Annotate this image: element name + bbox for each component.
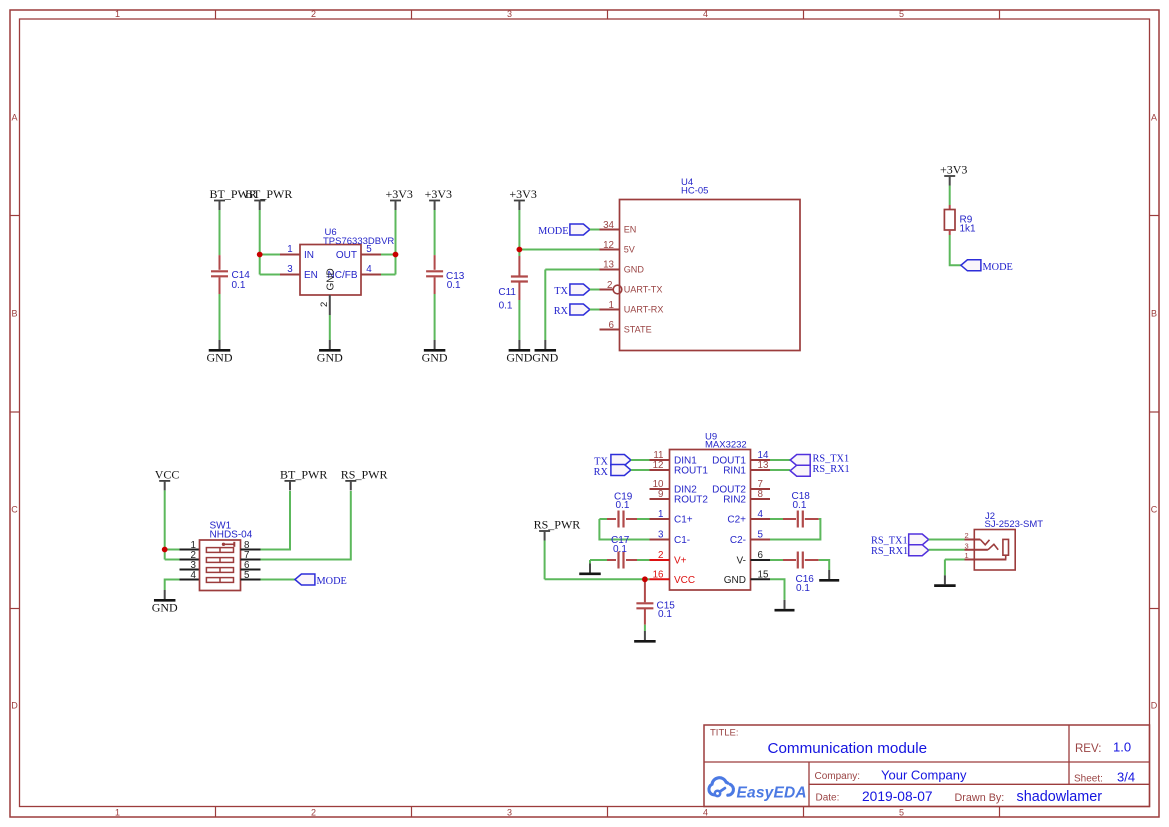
wire C19 to U9 pin 3 (599, 519, 649, 540)
U4 pin 13 lead (600, 269, 620, 271)
wire to SW1 pin 1 (165, 549, 180, 551)
wire MODE to U4 pin 34 (590, 229, 600, 231)
svg-text:EN: EN (304, 270, 318, 281)
svg-text:IN: IN (304, 250, 314, 261)
svg-text:Sheet:: Sheet: (1074, 774, 1103, 785)
U6 pin 3 lead (280, 274, 300, 276)
svg-text:VCC: VCC (674, 575, 695, 586)
svg-text:RS_RX1: RS_RX1 (813, 464, 850, 475)
resistor R9 top lead (949, 205, 951, 210)
svg-text:0.1: 0.1 (796, 583, 810, 594)
svg-text:0.1: 0.1 (613, 544, 627, 555)
svg-text:RS_RX1: RS_RX1 (871, 546, 908, 557)
svg-text:RX: RX (594, 467, 609, 478)
svg-text:13: 13 (603, 260, 614, 271)
svg-text:UART-RX: UART-RX (624, 304, 664, 314)
wire R9 to MODE port (950, 235, 961, 265)
svg-text:C1+: C1+ (674, 515, 693, 526)
capacitor C19 (619, 511, 624, 528)
U4 pin 2 inversion bubble (613, 285, 622, 294)
wire RX to U9 pin 12 (631, 469, 650, 471)
wire U6 output (381, 254, 396, 256)
junction at U6 output (393, 252, 399, 258)
wire U9 pin 14 to RS_TX1 (770, 459, 790, 461)
top column tick 2 (411, 10, 413, 19)
U9 pin 11 lead (650, 459, 670, 461)
svg-text:5V: 5V (624, 244, 636, 254)
svg-text:ROUT2: ROUT2 (674, 495, 708, 506)
svg-text:RIN1: RIN1 (723, 466, 746, 477)
svg-text:OUT: OUT (336, 250, 357, 261)
svg-text:GND: GND (506, 351, 532, 365)
SW1 pin 5 lead (241, 579, 261, 581)
U6 pin 2 lead (329, 295, 331, 315)
svg-text:BT_PWR: BT_PWR (280, 467, 327, 481)
svg-text:2019-08-07: 2019-08-07 (862, 789, 933, 804)
right row tick 3 (1150, 608, 1160, 610)
wire C14 to ground (219, 294, 221, 340)
wire SW1 pin 5 to MODE port (261, 579, 295, 581)
svg-text:REV:: REV: (1075, 743, 1101, 755)
svg-text:TX: TX (554, 286, 568, 297)
svg-text:Drawn By:: Drawn By: (955, 792, 1005, 804)
left row tick 2 (10, 411, 20, 413)
J2 sleeve contact symbol (1003, 539, 1009, 559)
J2 pin 1 lead (965, 559, 1007, 561)
svg-text:RS_TX1: RS_TX1 (871, 536, 908, 547)
svg-text:V+: V+ (674, 556, 687, 567)
wire C18 to U9 pin 5 (770, 519, 820, 540)
module U4 body (620, 200, 801, 351)
bottom column tick 5 (999, 807, 1001, 818)
SW1 pin 1 lead (180, 549, 200, 551)
svg-text:16: 16 (653, 569, 664, 580)
svg-text:VCC: VCC (155, 467, 180, 481)
wire down to U6 pin 4 (395, 255, 397, 275)
wire from BT_PWR 2 (259, 210, 261, 255)
svg-text:1: 1 (658, 509, 663, 520)
left row tick 1 (10, 215, 20, 217)
U9 pin 4 lead (751, 518, 771, 520)
capacitor C15 bottom lead (644, 608, 646, 624)
wire RX to U4 pin 1 (590, 309, 600, 311)
wire U9 pin 4 to C18 (770, 518, 783, 520)
wire SW1 pin 7 to RS_PWR (261, 491, 351, 560)
capacitor C13 top lead (434, 255, 436, 270)
svg-text:2: 2 (658, 550, 663, 561)
capacitor C15 (636, 603, 653, 608)
capacitor C14 (211, 271, 228, 276)
svg-text:RX: RX (554, 306, 569, 317)
ground for U4 GND pin (532, 340, 558, 365)
capacitor C19 left lead (607, 518, 616, 520)
capacitor C15 top lead (644, 579, 646, 602)
wire to SW1 pin 2 (165, 559, 180, 561)
svg-text:Date:: Date: (816, 793, 840, 804)
capacitor C11 top lead (518, 256, 520, 276)
wire C11 to ground (518, 300, 520, 340)
net port RX (570, 304, 590, 315)
junction at U9 VCC (642, 576, 648, 582)
wire ground to C17 (590, 559, 607, 561)
svg-text:1: 1 (287, 244, 292, 255)
J2 pin 2 lead (965, 539, 981, 541)
net port RX at U9 (611, 465, 631, 476)
left row tick 3 (10, 608, 20, 610)
net port MODE at SW1 (295, 574, 315, 585)
svg-text:3: 3 (507, 807, 512, 817)
U4 pin 1 lead (600, 309, 620, 311)
svg-text:GND: GND (207, 351, 233, 365)
transceiver U9 body (670, 450, 751, 591)
svg-text:EasyEDA: EasyEDA (737, 785, 807, 802)
resistor R9 bottom lead (949, 230, 951, 235)
svg-text:B: B (11, 309, 17, 319)
capacitor C18 left lead (783, 518, 796, 520)
svg-text:EN: EN (624, 224, 637, 234)
wire from RS_PWR at U9 (544, 541, 546, 580)
SW1 pin 3 lead (180, 569, 200, 571)
svg-text:ROUT1: ROUT1 (674, 466, 708, 477)
ground under C15 (634, 631, 656, 641)
svg-text:A: A (11, 113, 17, 123)
svg-text:3: 3 (507, 9, 512, 19)
svg-text:3: 3 (287, 264, 293, 275)
wire C19 to U9 pin 1 (637, 518, 650, 520)
power flag +3V3 at HC-05 (509, 187, 536, 210)
ground under U6 (317, 340, 343, 365)
svg-text:shadowlamer: shadowlamer (1017, 789, 1103, 805)
SW1 pin 7 lead (241, 559, 261, 561)
power flag RS_PWR at U9 (534, 517, 581, 540)
svg-text:5: 5 (899, 9, 904, 19)
right row tick 1 (1150, 215, 1160, 217)
svg-text:0.1: 0.1 (232, 280, 246, 291)
U6 pin 4 lead (361, 274, 381, 276)
resistor R9 body (944, 210, 955, 231)
svg-text:RIN2: RIN2 (723, 495, 746, 506)
svg-text:C1-: C1- (674, 535, 690, 546)
svg-text:+3V3: +3V3 (509, 187, 536, 201)
U9 pin 15 lead (751, 578, 771, 580)
svg-text:GND: GND (326, 268, 337, 290)
capacitor C11 (511, 277, 528, 282)
svg-text:C2+: C2+ (727, 515, 746, 526)
capacitor C17 (619, 552, 624, 569)
svg-text:0.1: 0.1 (658, 609, 672, 620)
svg-text:1.0: 1.0 (1113, 740, 1131, 755)
ground at U9 pin 15 (775, 600, 795, 610)
U6 pin 5 lead (361, 254, 381, 256)
capacitor C13 bottom lead (434, 277, 436, 294)
svg-text:2: 2 (311, 9, 316, 19)
wire C13 to ground (434, 294, 436, 340)
svg-text:BT_PWR: BT_PWR (245, 187, 292, 201)
U9 pin 5 lead (751, 539, 771, 541)
ground under C11 (506, 340, 532, 365)
U9 pin 9 lead (650, 498, 670, 500)
net port RS_TX1 at U9 (790, 455, 810, 466)
svg-text:2: 2 (319, 302, 330, 307)
wire to C19 (599, 518, 607, 520)
wire RS_TX1 to J2 pin 2 (929, 539, 965, 541)
svg-text:B: B (1151, 309, 1157, 319)
capacitor C11 bottom lead (518, 283, 520, 301)
wire U6 pin 2 to ground (329, 315, 331, 340)
U9 pin 12 lead (650, 469, 670, 471)
wire to U4 pin 13 (545, 269, 599, 271)
svg-text:3: 3 (965, 541, 969, 550)
U9 pin 13 lead (751, 469, 771, 471)
wire RS_RX1 to J2 pin 3 (929, 549, 965, 551)
wire junction to U9 pin 16 (645, 578, 650, 580)
capacitor C17 right lead (626, 559, 637, 561)
SW1 pin 4 lead (180, 579, 200, 581)
EasyEDA logo cloud icon (709, 778, 734, 796)
capacitor C18 right lead (805, 518, 819, 520)
svg-text:D: D (1151, 701, 1158, 711)
top column tick 1 (215, 10, 217, 19)
SW1 pin 2 lead (180, 559, 200, 561)
svg-text:MODE: MODE (538, 226, 568, 237)
U9 pin 3 lead (650, 539, 670, 541)
bottom column tick 3 (607, 807, 609, 818)
svg-text:1: 1 (609, 300, 614, 311)
U9 pin 14 lead (751, 459, 771, 461)
junction at HC-05 5V (517, 247, 523, 253)
U9 pin 7 lead (751, 488, 771, 490)
capacitor C14 top lead (219, 255, 221, 270)
junction at U6 input (257, 252, 263, 258)
SW1 switch element row 2 (206, 558, 233, 563)
svg-text:+3V3: +3V3 (940, 162, 967, 176)
svg-text:+3V3: +3V3 (386, 187, 413, 201)
svg-text:Communication module: Communication module (768, 740, 928, 757)
power flag +3V3 at U6 output (386, 187, 413, 210)
net port RS_RX1 at J2 (909, 545, 929, 556)
bottom column tick 1 (215, 807, 217, 818)
svg-text:3: 3 (658, 530, 664, 541)
svg-text:0.1: 0.1 (447, 280, 461, 291)
svg-text:C: C (11, 505, 18, 515)
svg-text:STATE: STATE (624, 324, 652, 334)
svg-text:MAX3232: MAX3232 (705, 440, 747, 451)
wire down to SW1 pin 2 (164, 550, 166, 560)
svg-text:RS_TX1: RS_TX1 (813, 454, 850, 465)
top column tick 4 (803, 10, 805, 19)
power flag BT_PWR 1 (210, 187, 257, 210)
svg-text:5: 5 (899, 807, 904, 817)
wire to U6 pin 1 (260, 254, 280, 256)
wire +3V3 to U4 pin 12 (519, 249, 599, 251)
wire down from J2 pin 1 (944, 560, 946, 576)
wire U9 pin 15 to ground (770, 579, 785, 600)
svg-text:0.1: 0.1 (793, 500, 807, 511)
capacitor C16 (798, 552, 803, 569)
J2 tip contact symbol (980, 540, 989, 545)
svg-text:3/4: 3/4 (1117, 770, 1135, 785)
ground under C13 (422, 340, 448, 365)
wire RS_PWR to U9 VCC (545, 578, 645, 580)
power flag RS_PWR at SW1 (341, 467, 388, 490)
svg-text:GND: GND (724, 575, 746, 586)
SW1 switch element row 1 (206, 548, 233, 553)
svg-text:12: 12 (653, 460, 664, 471)
wire U4 GND down (544, 270, 546, 341)
svg-text:+3V3: +3V3 (425, 187, 452, 201)
power flag BT_PWR 2 (245, 187, 292, 210)
svg-text:GND: GND (152, 601, 178, 615)
svg-text:Your Company: Your Company (881, 768, 967, 783)
wire down to U6 pin 3 (259, 255, 261, 275)
ground under SW1 (152, 590, 178, 615)
wire C17 to U9 pin 2 (637, 559, 650, 561)
U4 pin 12 lead (600, 249, 620, 251)
U9 pin 10 lead (650, 488, 670, 490)
U9 pin 16 lead (650, 578, 670, 580)
svg-text:4: 4 (703, 807, 708, 817)
net port MODE at R9 (961, 260, 981, 271)
wire to U6 pin 4 (381, 274, 396, 276)
svg-text:0.1: 0.1 (499, 301, 513, 312)
U4 pin 34 lead (600, 229, 620, 231)
U6 pin 1 lead (280, 254, 300, 256)
U9 pin 8 lead (751, 498, 771, 500)
wire SW1 pin 4 to ground (165, 580, 180, 591)
ground at C16 (819, 570, 839, 580)
svg-text:34: 34 (603, 220, 614, 231)
svg-text:A: A (1151, 113, 1157, 123)
svg-text:4: 4 (703, 9, 708, 19)
svg-text:0.1: 0.1 (616, 500, 630, 511)
svg-text:9: 9 (658, 489, 663, 500)
svg-text:NHDS-04: NHDS-04 (210, 529, 253, 540)
wire from +3V3 at HC-05 (518, 210, 520, 250)
svg-text:12: 12 (603, 240, 614, 251)
svg-text:RS_PWR: RS_PWR (534, 517, 581, 531)
svg-text:V-: V- (737, 556, 746, 567)
net port TX (570, 284, 590, 295)
svg-text:2: 2 (965, 531, 969, 540)
power flag +3V3 at R9 (940, 162, 967, 185)
capacitor C14 bottom lead (219, 277, 221, 294)
svg-text:GND: GND (624, 264, 645, 274)
svg-text:4: 4 (191, 570, 197, 581)
SW1 switch element row 3 (206, 568, 233, 573)
regulator U6 body (300, 245, 361, 296)
net port MODE at U4 (570, 224, 590, 235)
svg-text:RS_PWR: RS_PWR (341, 467, 388, 481)
wire junction to C11 (518, 250, 520, 257)
power flag BT_PWR at SW1 (280, 467, 327, 490)
SW1 switch element row 4 (206, 578, 233, 583)
svg-text:C11: C11 (498, 287, 516, 298)
U9 pin 1 lead (650, 518, 670, 520)
svg-text:MODE: MODE (983, 262, 1013, 273)
svg-text:TITLE:: TITLE: (710, 728, 739, 739)
wire TX to U9 pin 11 (631, 459, 650, 461)
U4 pin 2 lead (600, 289, 614, 291)
bottom column tick 4 (803, 807, 805, 818)
wire from +3V3 at C13 (434, 210, 436, 255)
SW1 slider indicator (222, 542, 235, 547)
svg-text:6: 6 (609, 320, 615, 331)
J2 pin 3 lead (965, 549, 988, 551)
net port TX at U9 (611, 455, 631, 466)
svg-text:2: 2 (607, 280, 612, 291)
jack J2 body (974, 530, 1015, 571)
wire +3V3 to junction (395, 210, 397, 255)
U9 pin 2 lead (650, 559, 670, 561)
svg-text:SJ-2523-SMT: SJ-2523-SMT (985, 519, 1044, 530)
capacitor C17 left lead (607, 559, 616, 561)
net port RS_TX1 at J2 (909, 534, 929, 545)
wire U9 pin 13 to RS_RX1 (770, 469, 790, 471)
wire J2 pin 1 to ground (945, 559, 965, 561)
svg-text:1k1: 1k1 (960, 223, 977, 234)
junction at SW1 pin 1 (162, 547, 168, 553)
right row tick 2 (1150, 411, 1160, 413)
U4 pin 6 lead (600, 329, 620, 331)
capacitor C13 (426, 271, 443, 276)
wire C16 to ground (819, 560, 830, 570)
wire to U6 pin 3 (260, 274, 280, 276)
power flag VCC (155, 467, 180, 490)
wire C17 to ground (589, 560, 591, 564)
svg-text:C2-: C2- (730, 535, 746, 546)
SW1 pin 6 lead (241, 569, 261, 571)
wire from VCC (164, 490, 166, 549)
svg-text:1: 1 (965, 551, 969, 560)
svg-text:UART-TX: UART-TX (624, 284, 663, 294)
svg-text:1: 1 (115, 807, 120, 817)
net port RS_RX1 at U9 (790, 465, 810, 476)
svg-text:GND: GND (422, 351, 448, 365)
bottom column tick 2 (411, 807, 413, 818)
svg-text:TPS76333DBVR: TPS76333DBVR (323, 236, 394, 247)
capacitor C16 right lead (805, 559, 819, 561)
wire from BT_PWR 1 (219, 210, 221, 255)
wire TX to U4 pin 2 (590, 289, 600, 291)
svg-text:2: 2 (311, 807, 316, 817)
title block frame (704, 725, 1150, 807)
switch SW1 body (200, 540, 241, 591)
wire SW1 pin 8 to BT_PWR (261, 491, 291, 550)
svg-text:GND: GND (317, 351, 343, 365)
svg-text:HC-05: HC-05 (681, 186, 708, 197)
svg-text:GND: GND (532, 351, 558, 365)
svg-text:MODE: MODE (317, 576, 347, 587)
ground under C14 (207, 340, 233, 365)
ground under J2 (934, 575, 956, 585)
wire C15 to ground (644, 625, 646, 631)
svg-text:D: D (11, 701, 18, 711)
svg-text:C: C (1151, 505, 1158, 515)
svg-text:Company:: Company: (815, 771, 861, 782)
svg-text:4: 4 (366, 264, 372, 275)
power flag +3V3 at C13 (425, 187, 452, 210)
SW1 pin 8 lead (241, 549, 261, 551)
J2 ring contact symbol (988, 544, 998, 550)
U9 pin 6 lead (751, 559, 771, 561)
top column tick 5 (999, 10, 1001, 19)
svg-text:5: 5 (366, 244, 372, 255)
top column tick 3 (607, 10, 609, 19)
wire +3V3 to R9 (949, 186, 951, 206)
capacitor C19 right lead (626, 518, 637, 520)
svg-text:1: 1 (115, 9, 120, 19)
ground at C17 (579, 564, 601, 574)
